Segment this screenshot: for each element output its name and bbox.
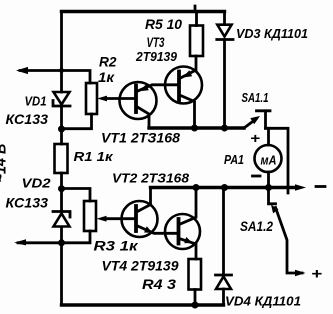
svg-text:VT2 2ТЗ168: VT2 2ТЗ168 <box>112 171 190 186</box>
svg-text:R3 1к: R3 1к <box>94 239 139 254</box>
svg-text:SA1.1: SA1.1 <box>242 91 269 105</box>
svg-text:VD4 КД1101: VD4 КД1101 <box>225 294 301 309</box>
svg-text:КС133: КС133 <box>6 112 49 127</box>
svg-text:VT3: VT3 <box>147 34 165 50</box>
svg-text:2Т9139: 2Т9139 <box>135 49 178 64</box>
svg-text:1к: 1к <box>98 69 115 85</box>
svg-text:VD3 КД1101: VD3 КД1101 <box>236 26 308 41</box>
svg-text:R2: R2 <box>99 54 117 70</box>
svg-text:PA1: PA1 <box>224 153 244 167</box>
svg-text:КС133: КС133 <box>6 196 49 211</box>
svg-text:VD1: VD1 <box>25 95 47 109</box>
svg-text:R1 1к: R1 1к <box>74 149 115 164</box>
svg-text:VD2: VD2 <box>22 177 51 191</box>
svg-text:VT4 2Т9139: VT4 2Т9139 <box>102 259 180 274</box>
svg-text:+: + <box>311 266 322 283</box>
svg-text:R5 10: R5 10 <box>145 16 182 32</box>
svg-text:~14 В: ~14 В <box>0 144 10 183</box>
svg-text:VT1 2ТЗ168: VT1 2ТЗ168 <box>101 131 181 146</box>
svg-text:R4 3: R4 3 <box>142 276 176 292</box>
svg-text:+: + <box>250 130 260 146</box>
svg-text:мА: мА <box>261 154 277 168</box>
svg-text:SA1.2: SA1.2 <box>240 218 273 234</box>
